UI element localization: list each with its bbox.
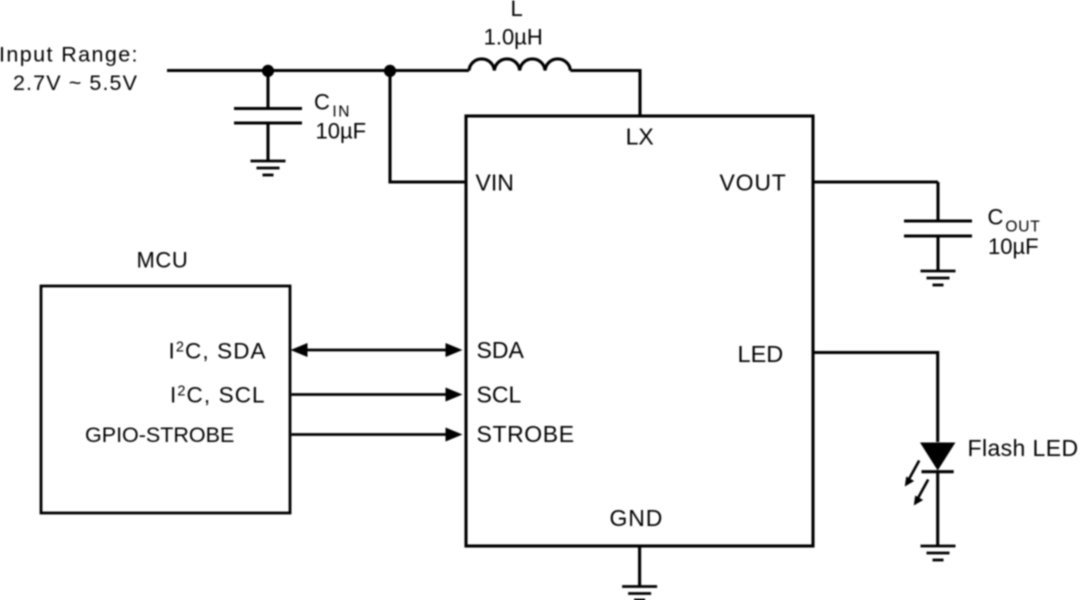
svg-text:GND: GND [610,505,664,531]
ground: CIN ground [251,161,286,175]
svg-text:STROBE: STROBE [477,421,575,447]
svg-text:LED: LED [738,341,784,367]
LED light emission arrow 1 [905,461,919,487]
svg-text:VOUT: VOUT [720,170,787,196]
wire: inductor to LX pin [570,71,640,117]
svg-text:MCU: MCU [137,247,189,272]
svg-text:Input Range:: Input Range: [0,43,139,67]
svg-text:10µF: 10µF [988,234,1039,259]
LED D1: flash LED diode (anode triangle) [920,443,955,471]
svg-text:COUT: COUT [988,205,1041,236]
svg-text:SDA: SDA [477,337,525,363]
svg-text:CIN: CIN [314,89,351,120]
svg-text:VIN: VIN [476,170,514,196]
LED light emission arrow 2 [914,480,928,506]
svg-text:Flash LED: Flash LED [968,435,1079,461]
svg-text:SCL: SCL [477,381,522,407]
svg-text:L: L [511,0,523,21]
wire: SDA bidirectional bus [291,343,463,357]
svg-text:2.7V ~ 5.5V: 2.7V ~ 5.5V [13,71,138,95]
IC U1: flash LED driver [466,116,813,546]
svg-text:I2C, SDA: I2C, SDA [169,338,267,363]
ground: IC GND ground [622,587,657,600]
wire: STROBE line with arrow [292,428,463,442]
svg-text:1.0µH: 1.0µH [484,24,543,49]
wire: VOUT to COUT [813,180,938,183]
node: junction at VIN branch [384,65,396,77]
inductor L [469,59,570,71]
LED D1 cathode bar [922,470,954,473]
wire: GND pin to ground [638,546,641,586]
node: junction at CIN tap [262,65,274,77]
svg-text:I2C, SCL: I2C, SCL [170,382,266,407]
ground: COUT ground [921,271,956,285]
wire: LED cathode to ground [936,473,939,546]
wire: LED pin to flash LED [813,353,938,443]
wire: input rail [167,69,469,72]
svg-text:10µF: 10µF [316,118,367,143]
ground: flash LED ground [921,546,956,560]
capacitor C_OUT [904,182,972,271]
svg-text:LX: LX [626,124,654,150]
wire: VIN branch from input rail [390,71,466,182]
svg-text:GPIO-STROBE: GPIO-STROBE [85,423,234,447]
wire: SCL line with arrow [292,388,463,402]
capacitor C_IN [234,71,302,160]
MCU block [41,286,290,513]
